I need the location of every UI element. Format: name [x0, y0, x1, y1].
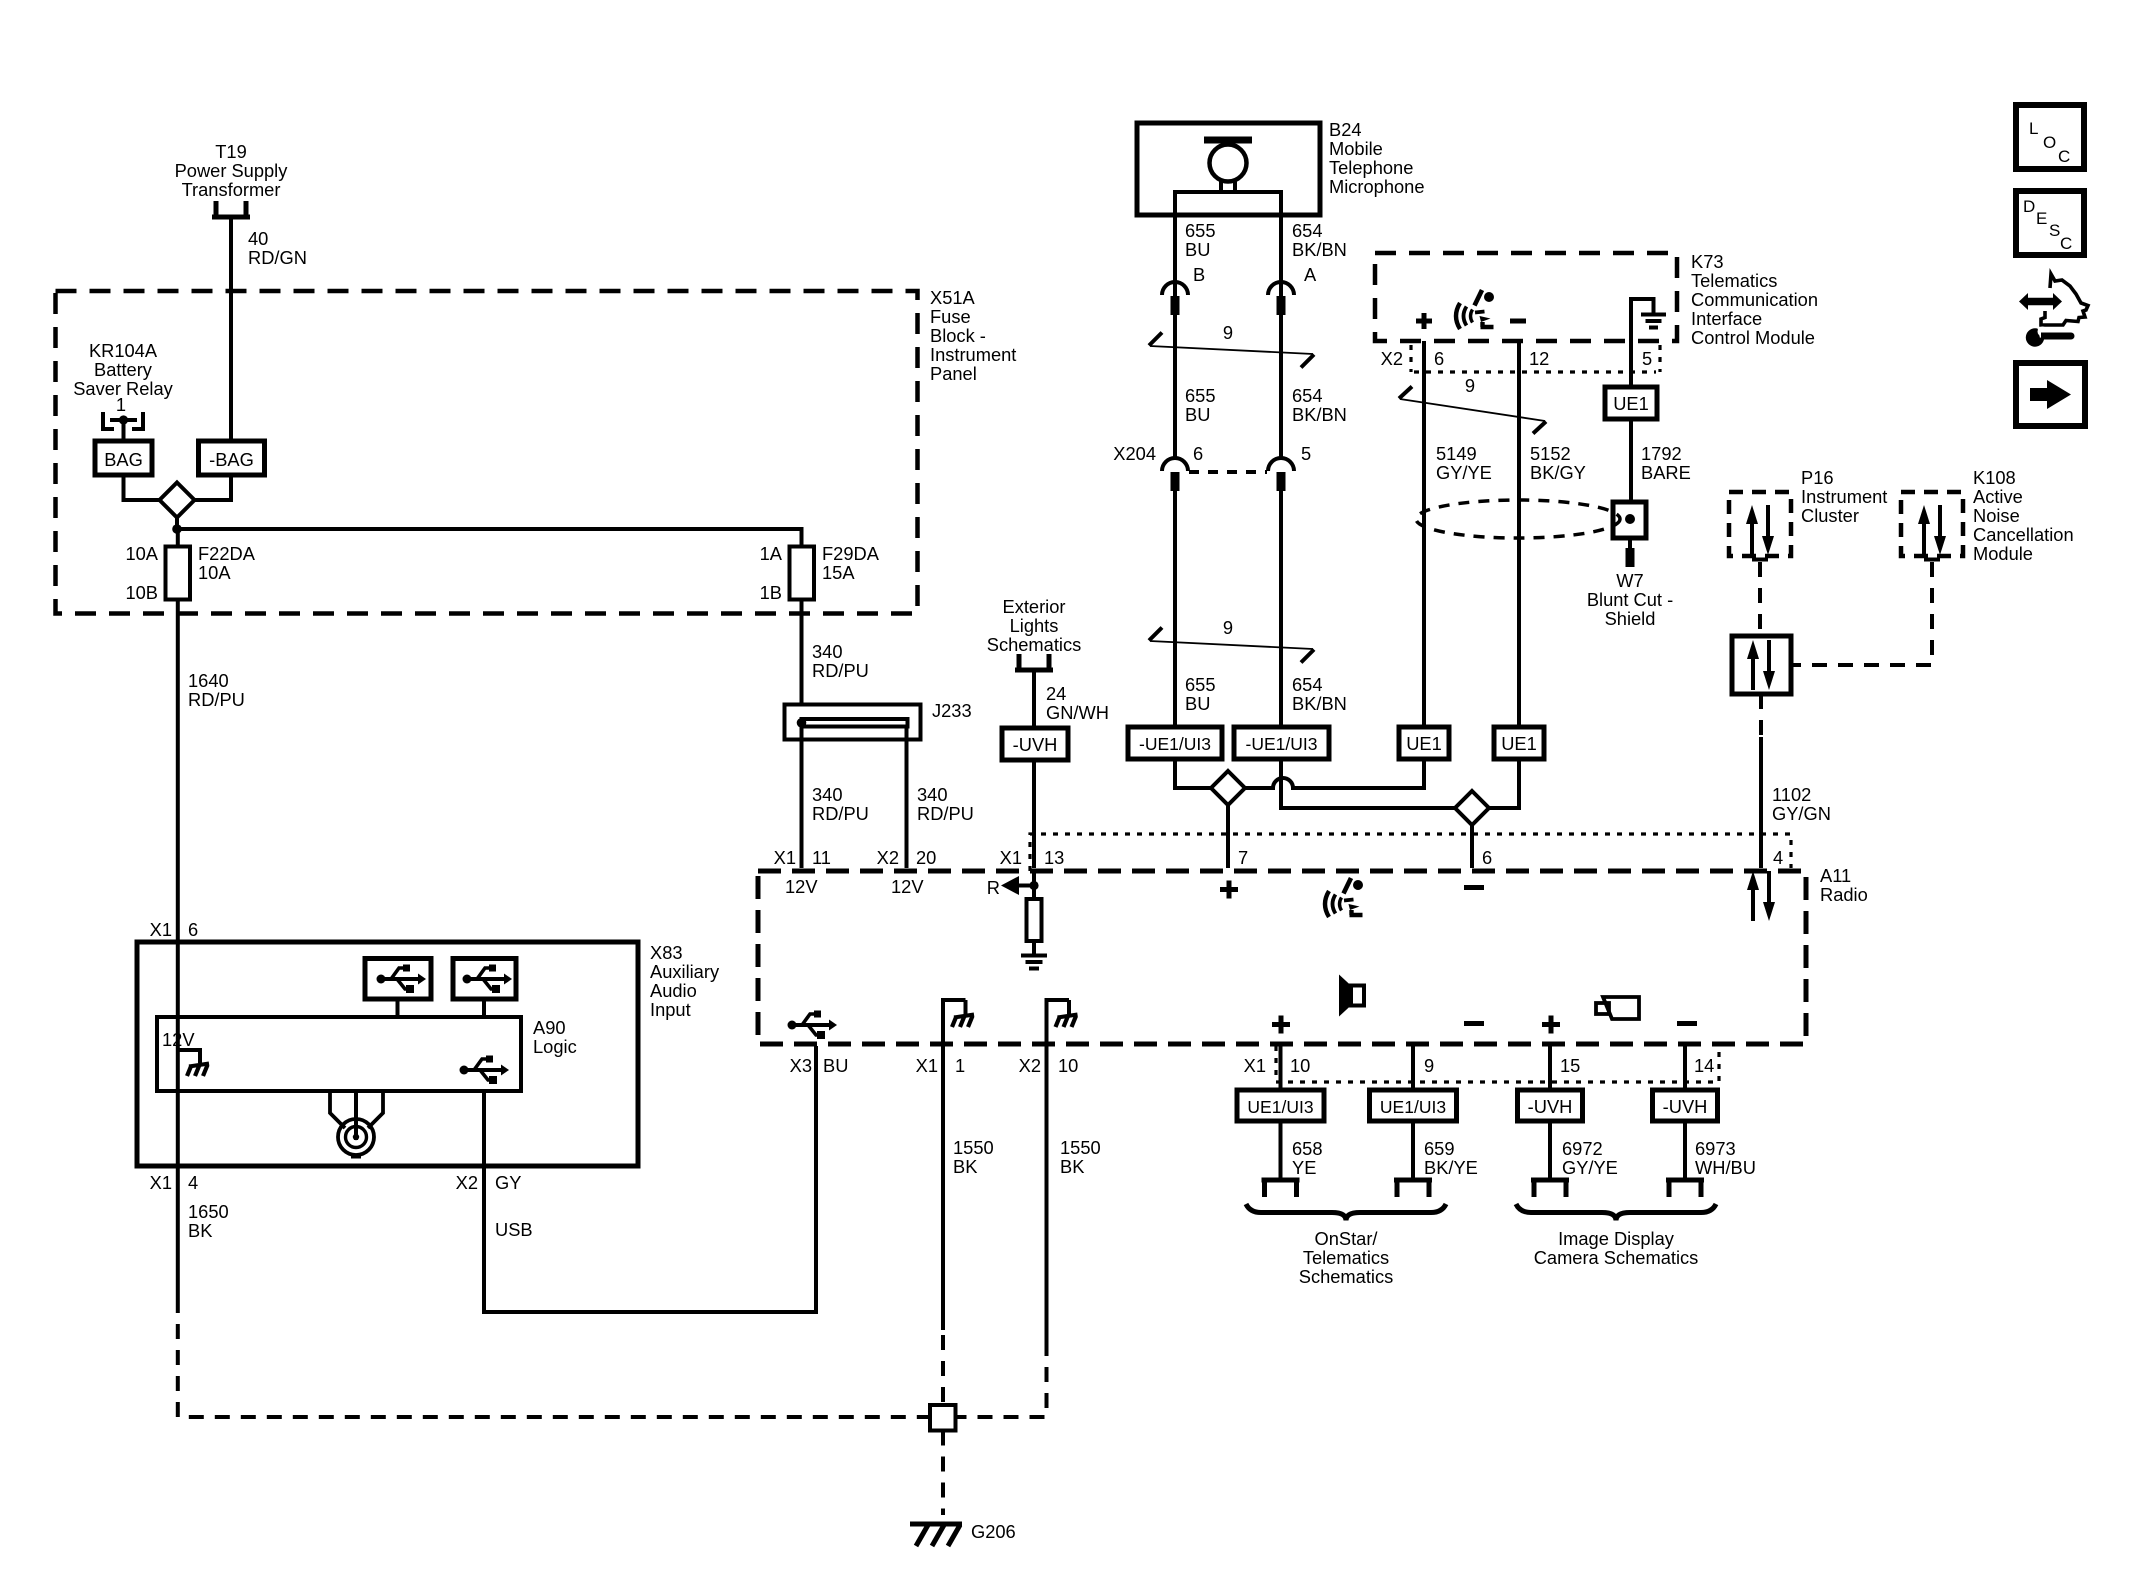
svg-text:12: 12: [1529, 348, 1549, 369]
wire A90 USB to X2 GY pin: [482, 1091, 486, 1166]
svg-text:11: 11: [812, 847, 831, 868]
K73 microphone icon: [1456, 290, 1494, 329]
svg-text:F29DA: F29DA: [822, 543, 880, 564]
shield W7 box with drain dot: [1613, 502, 1646, 538]
svg-text:658: 658: [1292, 1138, 1323, 1159]
K73 chassis ground bars: [1641, 315, 1666, 328]
svg-text:20: 20: [916, 847, 936, 868]
svg-text:Schematics: Schematics: [1299, 1266, 1394, 1287]
wire 658 YE to terminal: [1279, 1121, 1283, 1180]
radio bottom connector dotted boundary: [1276, 1046, 1719, 1082]
radio pin label 9: [1424, 1055, 1434, 1076]
wire label 659 BK/YE: [1424, 1138, 1478, 1178]
radio internal minus (mic): [1464, 885, 1484, 890]
junction dot: [172, 524, 182, 534]
svg-text:X1: X1: [1244, 1055, 1266, 1076]
radio internal USB icon (X3): [788, 1011, 838, 1040]
K108 arrows icon: [1918, 505, 1946, 555]
connector X204 terminal 6: [1162, 458, 1188, 491]
wire UE1 to W7: [1629, 419, 1633, 502]
fuse block X51A dashed box: [56, 291, 918, 614]
radio internal speaker icon: [1339, 975, 1364, 1017]
svg-text:BK/BN: BK/BN: [1292, 404, 1347, 425]
fuse block X51A label: [930, 287, 1016, 384]
wire 1650 BK solid part: [176, 1166, 180, 1298]
svg-text:BU: BU: [1185, 239, 1210, 260]
svg-text:Cancellation: Cancellation: [1973, 524, 2074, 545]
svg-text:B: B: [1193, 264, 1205, 285]
svg-text:WH/BU: WH/BU: [1695, 1157, 1756, 1178]
X83 pin label X2 GY: [456, 1172, 522, 1193]
legend harness icon wrench: [2026, 326, 2075, 347]
svg-text:RD/PU: RD/PU: [812, 803, 869, 824]
splice diamond S3: [1455, 791, 1489, 825]
svg-text:BU: BU: [823, 1055, 848, 1076]
wire label 6972 GY/YE: [1562, 1138, 1618, 1178]
svg-text:13: 13: [1044, 847, 1064, 868]
svg-text:X1: X1: [150, 1172, 172, 1193]
USB port box 1: [365, 959, 431, 1000]
microphone B24 label: [1329, 119, 1425, 197]
A90 internal ground branch: [178, 1050, 209, 1076]
wire splice S3 to radio pin 6: [1470, 825, 1474, 868]
svg-text:1: 1: [955, 1055, 965, 1076]
radio internal ground hook X1 1: [941, 1000, 974, 1044]
microphone internal wire: [1175, 192, 1281, 215]
svg-text:BARE: BARE: [1641, 462, 1691, 483]
terminal bracket 658: [1262, 1180, 1300, 1197]
wire radio pin 9 to UE1/UI3: [1411, 1046, 1415, 1090]
wire 1102 GY/GN to radio pin 4: [1759, 737, 1763, 868]
legend LOC box: [2016, 105, 2084, 169]
svg-text:BK/BN: BK/BN: [1292, 239, 1347, 260]
svg-text:Exterior: Exterior: [1003, 596, 1066, 617]
splice diamond S1: [160, 483, 195, 518]
svg-text:Instrument: Instrument: [930, 344, 1016, 365]
wire USB port 2 to A90: [482, 999, 486, 1017]
relay KR104A label: [73, 340, 173, 399]
svg-text:A11: A11: [1820, 865, 1851, 886]
wire label USB: [495, 1219, 533, 1240]
svg-text:5: 5: [1642, 348, 1652, 369]
svg-text:4: 4: [1773, 847, 1783, 868]
wire K73 pin 5 to UE1 (1792 BARE): [1629, 341, 1633, 387]
svg-text:D: D: [2023, 197, 2035, 216]
radio internal wire resistor to ground: [1032, 941, 1036, 955]
svg-text:655: 655: [1185, 385, 1216, 406]
svg-text:1B: 1B: [760, 582, 782, 603]
net box -UVH (6973): [1653, 1090, 1718, 1121]
svg-text:GY/GN: GY/GN: [1772, 803, 1831, 824]
splice pack J233 outer box: [785, 705, 921, 740]
instrument cluster P16 dashed box: [1729, 492, 1791, 556]
net box -BAG: [199, 441, 265, 475]
wire 654 BK/BN X204 to -UE1/UI3: [1279, 491, 1283, 727]
brace OnStar group: [1246, 1204, 1446, 1221]
radio pin label X1 1: [916, 1055, 966, 1076]
svg-text:Communication: Communication: [1691, 289, 1818, 310]
wire J233 bus to radio pin X2 20 (340 RD/PU): [905, 727, 909, 869]
svg-text:24: 24: [1046, 683, 1066, 704]
K108 label: [1973, 467, 2074, 564]
svg-text:Microphone: Microphone: [1329, 176, 1425, 197]
svg-text:40: 40: [248, 228, 268, 249]
svg-text:6: 6: [1193, 443, 1203, 464]
svg-text:R: R: [987, 877, 1000, 898]
K73 internal ground wire: [1631, 299, 1654, 341]
radio internal plus (camera): [1542, 1016, 1560, 1034]
wire 1650 BK dashed part to G206 junction: [178, 1298, 928, 1417]
svg-text:12V: 12V: [891, 876, 924, 897]
net box UE1 (pin 5): [1605, 387, 1657, 419]
svg-text:Telematics: Telematics: [1303, 1247, 1389, 1268]
svg-text:10: 10: [1290, 1055, 1310, 1076]
svg-text:Camera Schematics: Camera Schematics: [1534, 1247, 1699, 1268]
svg-text:X51A: X51A: [930, 287, 976, 308]
headphone jack icon rings: [338, 1091, 374, 1159]
svg-text:BAG: BAG: [104, 449, 143, 470]
svg-text:10A: 10A: [125, 543, 158, 564]
wire radio pin X1 10 to UE1/UI3: [1279, 1046, 1283, 1090]
svg-text:9: 9: [1223, 617, 1233, 638]
svg-text:1: 1: [116, 394, 126, 415]
svg-text:Lights: Lights: [1010, 615, 1059, 636]
ground junction box G206: [930, 1405, 956, 1431]
wire K73 pin 6 down (5149 GY/YE): [1422, 341, 1426, 727]
svg-text:A90: A90: [533, 1017, 566, 1038]
transformer T19 label: [175, 141, 289, 200]
svg-text:Telephone: Telephone: [1329, 157, 1413, 178]
radio A11 dashed box: [758, 871, 1806, 1044]
svg-text:4: 4: [188, 1172, 198, 1193]
radio pin label X1 13: [1000, 847, 1065, 868]
radio pin label 7: [1238, 847, 1248, 868]
splice pack J233 bus bar: [802, 719, 908, 727]
dashed link P16 to data box: [1758, 562, 1762, 636]
module K73 label: [1691, 251, 1818, 348]
terminal bracket 6973: [1666, 1180, 1704, 1197]
svg-text:K73: K73: [1691, 251, 1724, 272]
terminal bracket 6972: [1531, 1180, 1569, 1197]
connector X2 label: [1381, 348, 1403, 369]
fuse F29DA: [790, 547, 815, 600]
K73 microphone minus sign: [1510, 319, 1526, 324]
wire 655 BU X204 to -UE1/UI3: [1173, 491, 1177, 727]
svg-text:BK/YE: BK/YE: [1424, 1157, 1478, 1178]
svg-text:J233: J233: [932, 700, 972, 721]
svg-text:1102: 1102: [1772, 784, 1811, 805]
svg-text:UE1: UE1: [1613, 393, 1649, 414]
fuse F22DA name label: [198, 543, 256, 583]
svg-text:15A: 15A: [822, 562, 855, 583]
wire radio pin 14 to -UVH: [1683, 1046, 1687, 1090]
svg-text:C: C: [2058, 147, 2070, 166]
svg-text:GY/YE: GY/YE: [1436, 462, 1492, 483]
wire radio pin 15 to -UVH: [1548, 1046, 1552, 1090]
exterior lights schematic label: [987, 596, 1082, 655]
legend DESC box: [2016, 191, 2084, 255]
wire label 1792 BARE: [1641, 443, 1691, 483]
ground label G206: [971, 1521, 1016, 1542]
svg-text:Fuse: Fuse: [930, 306, 971, 327]
dashed link data box to wire 1102: [1759, 694, 1763, 737]
net box -UE1/UI3 left: [1128, 727, 1222, 759]
wire X1 6 through A90 to X1 4: [176, 942, 180, 1166]
radio pin label X3 BU: [790, 1055, 849, 1076]
svg-text:-UE1/UI3: -UE1/UI3: [1139, 734, 1211, 754]
svg-text:15: 15: [1560, 1055, 1580, 1076]
wire label 655 BU middle: [1185, 385, 1216, 425]
dashed wire junction to ground G206: [941, 1431, 945, 1516]
svg-text:BU: BU: [1185, 404, 1210, 425]
K108 dashed box: [1901, 492, 1963, 556]
svg-text:X1: X1: [774, 847, 796, 868]
svg-text:X2: X2: [1381, 348, 1403, 369]
fuse F22DA pin label 10A: [125, 543, 158, 564]
headphone jack icon legs: [330, 1091, 383, 1128]
connector X2 dotted boundary: [1411, 345, 1660, 372]
radio pin label 6: [1482, 847, 1492, 868]
svg-text:10: 10: [1058, 1055, 1078, 1076]
P16 arrows icon: [1746, 505, 1774, 555]
svg-text:S: S: [2049, 221, 2060, 240]
svg-text:F22DA: F22DA: [198, 543, 256, 564]
radio internal ground bars: [1021, 956, 1047, 969]
blunt cut stub below W7: [1626, 538, 1635, 567]
svg-text:RD/PU: RD/PU: [917, 803, 974, 824]
relay pin 1 label: [116, 394, 126, 415]
wire 6973 WH/BU to terminal: [1683, 1121, 1687, 1180]
svg-text:Interface: Interface: [1691, 308, 1762, 329]
radio internal minus (camera): [1677, 1021, 1697, 1026]
terminal bracket 659: [1394, 1180, 1432, 1197]
wire label 5149 GY/YE: [1436, 443, 1492, 483]
wire label 655 BU: [1185, 220, 1216, 260]
wire splice S2 to radio pin 7: [1226, 805, 1230, 868]
wire USB X2 GY to radio X3: [484, 1046, 816, 1312]
svg-text:Input: Input: [650, 999, 691, 1020]
radio pin label X1 11: [774, 847, 831, 868]
svg-text:5: 5: [1301, 443, 1311, 464]
radio pin label 14: [1694, 1055, 1714, 1076]
radio pin label X1 10: [1244, 1055, 1311, 1076]
svg-text:-UVH: -UVH: [1528, 1096, 1573, 1117]
twisted pair marker 9 (K73): [1399, 375, 1546, 434]
A90 internal label 12V: [162, 1029, 195, 1050]
A90 internal USB icon: [460, 1056, 510, 1085]
twisted pair marker 9 (upper): [1149, 322, 1314, 368]
wire 654 BK/BN to X204: [1279, 315, 1283, 458]
svg-text:10B: 10B: [125, 582, 158, 603]
svg-text:GN/WH: GN/WH: [1046, 702, 1109, 723]
svg-text:BK: BK: [1060, 1156, 1084, 1177]
svg-text:B24: B24: [1329, 119, 1362, 140]
wire label 654 BK/BN middle: [1292, 385, 1347, 425]
net box BAG: [95, 441, 152, 475]
svg-text:UE1/UI3: UE1/UI3: [1247, 1097, 1313, 1117]
wire label 6973 WH/BU: [1695, 1138, 1756, 1178]
P16 bottom tick: [1752, 558, 1768, 562]
wire label 655 BU lower: [1185, 674, 1216, 714]
wire 40 RD/GN from T19 to -BAG coil: [229, 219, 233, 441]
svg-text:6973: 6973: [1695, 1138, 1736, 1159]
K73 pin 5 label: [1642, 348, 1652, 369]
svg-text:Transformer: Transformer: [182, 179, 281, 200]
wire label 658 YE: [1292, 1138, 1323, 1178]
svg-text:W7: W7: [1616, 570, 1643, 591]
wire UE1 right to splice S3: [1489, 759, 1519, 808]
wire label 340 RD/PU right: [917, 784, 974, 824]
splice pack J233 label: [932, 700, 972, 721]
radio internal plus (mic): [1220, 881, 1238, 899]
svg-text:RD/GN: RD/GN: [248, 247, 307, 268]
svg-text:T19: T19: [215, 141, 247, 162]
svg-text:6: 6: [1434, 348, 1444, 369]
svg-text:Module: Module: [1973, 543, 2033, 564]
radio pin label 4: [1773, 847, 1783, 868]
radio internal arrows icon (pin 4): [1747, 871, 1775, 921]
svg-text:GY: GY: [495, 1172, 521, 1193]
USB port box 2: [453, 959, 516, 1000]
svg-text:RD/PU: RD/PU: [812, 660, 869, 681]
connector X204 pin 6 label: [1193, 443, 1203, 464]
svg-text:Schematics: Schematics: [987, 634, 1082, 655]
svg-text:Radio: Radio: [1820, 884, 1868, 905]
fuse F29DA name label: [822, 543, 880, 583]
label OnStar Telematics Schematics: [1299, 1228, 1394, 1287]
wire label 1102 GY/GN: [1772, 784, 1831, 824]
svg-text:10A: 10A: [198, 562, 231, 583]
connector X204 dashed link: [1189, 470, 1267, 474]
net box -UVH (exterior lights): [1002, 728, 1068, 760]
svg-text:1A: 1A: [760, 543, 783, 564]
net box UE1/UI3 (659): [1370, 1090, 1457, 1121]
splice pack J233 junction dot: [797, 718, 807, 728]
svg-text:UE1/UI3: UE1/UI3: [1380, 1097, 1446, 1117]
radio internal minus (speaker): [1464, 1021, 1484, 1026]
pin label A: [1304, 264, 1317, 285]
K73 pin 6 label: [1434, 348, 1444, 369]
svg-text:1550: 1550: [1060, 1137, 1101, 1158]
net box UE1/UI3 (658): [1237, 1090, 1324, 1121]
K73 pin 12 label: [1529, 348, 1549, 369]
wire -UVH to radio pin X1 13: [1032, 760, 1036, 868]
net box -UE1/UI3 right: [1234, 727, 1329, 759]
connector terminal to T19: [212, 201, 250, 217]
wire 6972 GY/YE to terminal: [1548, 1121, 1552, 1180]
svg-text:654: 654: [1292, 220, 1323, 241]
svg-text:1550: 1550: [953, 1137, 994, 1158]
svg-text:X2: X2: [456, 1172, 478, 1193]
serial data box with arrows: [1732, 636, 1791, 694]
radio pin label X2 20: [877, 847, 937, 868]
svg-text:OnStar/: OnStar/: [1315, 1228, 1379, 1249]
svg-text:Mobile: Mobile: [1329, 138, 1383, 159]
wire splice to junction: [175, 518, 179, 530]
twisted pair marker 9 (lower): [1149, 617, 1314, 663]
svg-text:X204: X204: [1113, 443, 1156, 464]
logic module A90 label: [533, 1017, 577, 1057]
wire 1550 BK (X1 1) solid part: [941, 1046, 945, 1330]
label W7 Blunt Cut - Shield: [1587, 570, 1673, 629]
wire 659 BK/YE to terminal: [1411, 1121, 1415, 1180]
svg-text:9: 9: [1223, 322, 1233, 343]
svg-text:X2: X2: [1019, 1055, 1041, 1076]
svg-text:7: 7: [1238, 847, 1248, 868]
instrument cluster P16 label: [1801, 467, 1887, 526]
svg-text:Audio: Audio: [650, 980, 697, 1001]
inline connector terminal A: [1268, 282, 1294, 315]
svg-text:P16: P16: [1801, 467, 1834, 488]
wire UE1 to splice S2 with hop over 654: [1245, 759, 1424, 788]
svg-text:YE: YE: [1292, 1157, 1316, 1178]
wire from relay pin 1 to BAG: [122, 420, 126, 441]
wire label 5152 BK/GY: [1530, 443, 1586, 483]
svg-text:X1: X1: [916, 1055, 938, 1076]
svg-text:BK/GY: BK/GY: [1530, 462, 1586, 483]
svg-text:Control Module: Control Module: [1691, 327, 1815, 348]
svg-text:BK: BK: [953, 1156, 977, 1177]
svg-text:Auxiliary: Auxiliary: [650, 961, 720, 982]
svg-text:X1: X1: [150, 919, 172, 940]
wire USB port 1 to A90: [396, 999, 400, 1017]
svg-text:1792: 1792: [1641, 443, 1682, 464]
svg-text:-UVH: -UVH: [1013, 734, 1058, 755]
svg-text:Block -: Block -: [930, 325, 986, 346]
svg-text:14: 14: [1694, 1055, 1714, 1076]
svg-text:K108: K108: [1973, 467, 2016, 488]
radio top connector dotted boundary: [1030, 834, 1791, 871]
svg-text:X83: X83: [650, 942, 683, 963]
wire J233 to radio pin X1 11 (340 RD/PU): [800, 727, 804, 869]
svg-text:BK: BK: [188, 1220, 212, 1241]
wire label 1550 BK right: [1060, 1137, 1101, 1177]
radio internal ground hook X2 10: [1045, 1000, 1078, 1044]
wire 1550 BK (X2 10) solid part: [1045, 1046, 1049, 1341]
svg-text:Noise: Noise: [1973, 505, 2020, 526]
wire 655 BU to X204: [1173, 315, 1177, 458]
svg-text:-UE1/UI3: -UE1/UI3: [1246, 734, 1318, 754]
svg-text:Battery: Battery: [94, 359, 153, 380]
svg-text:Logic: Logic: [533, 1036, 577, 1057]
svg-text:USB: USB: [495, 1219, 533, 1240]
svg-text:9: 9: [1465, 375, 1475, 396]
svg-text:Image Display: Image Display: [1558, 1228, 1675, 1249]
svg-text:6: 6: [188, 919, 198, 940]
svg-text:655: 655: [1185, 220, 1216, 241]
wire label 340 RD/PU: [812, 641, 869, 681]
svg-text:A: A: [1304, 264, 1317, 285]
svg-text:Shield: Shield: [1605, 608, 1656, 629]
microphone icon top bar: [1204, 137, 1252, 144]
aux audio X83 box: [137, 942, 638, 1166]
connector X204 terminal 5: [1268, 458, 1294, 491]
svg-text:655: 655: [1185, 674, 1216, 695]
wire label 654 BK/BN: [1292, 220, 1347, 260]
module K73 dashed box: [1375, 253, 1677, 341]
splice diamond S2: [1211, 771, 1245, 805]
X83 pin label X1 4: [150, 1172, 199, 1193]
connector X204 pin 5 label: [1301, 443, 1311, 464]
wire label 1650 BK: [188, 1201, 229, 1241]
net box UE1 (right, to splice): [1494, 727, 1544, 759]
pin label B: [1193, 264, 1205, 285]
net box -UVH (6972): [1518, 1090, 1583, 1121]
svg-text:Telematics: Telematics: [1691, 270, 1777, 291]
radio pin label X2 10: [1019, 1055, 1079, 1076]
svg-text:Panel: Panel: [930, 363, 977, 384]
svg-text:6: 6: [1482, 847, 1492, 868]
